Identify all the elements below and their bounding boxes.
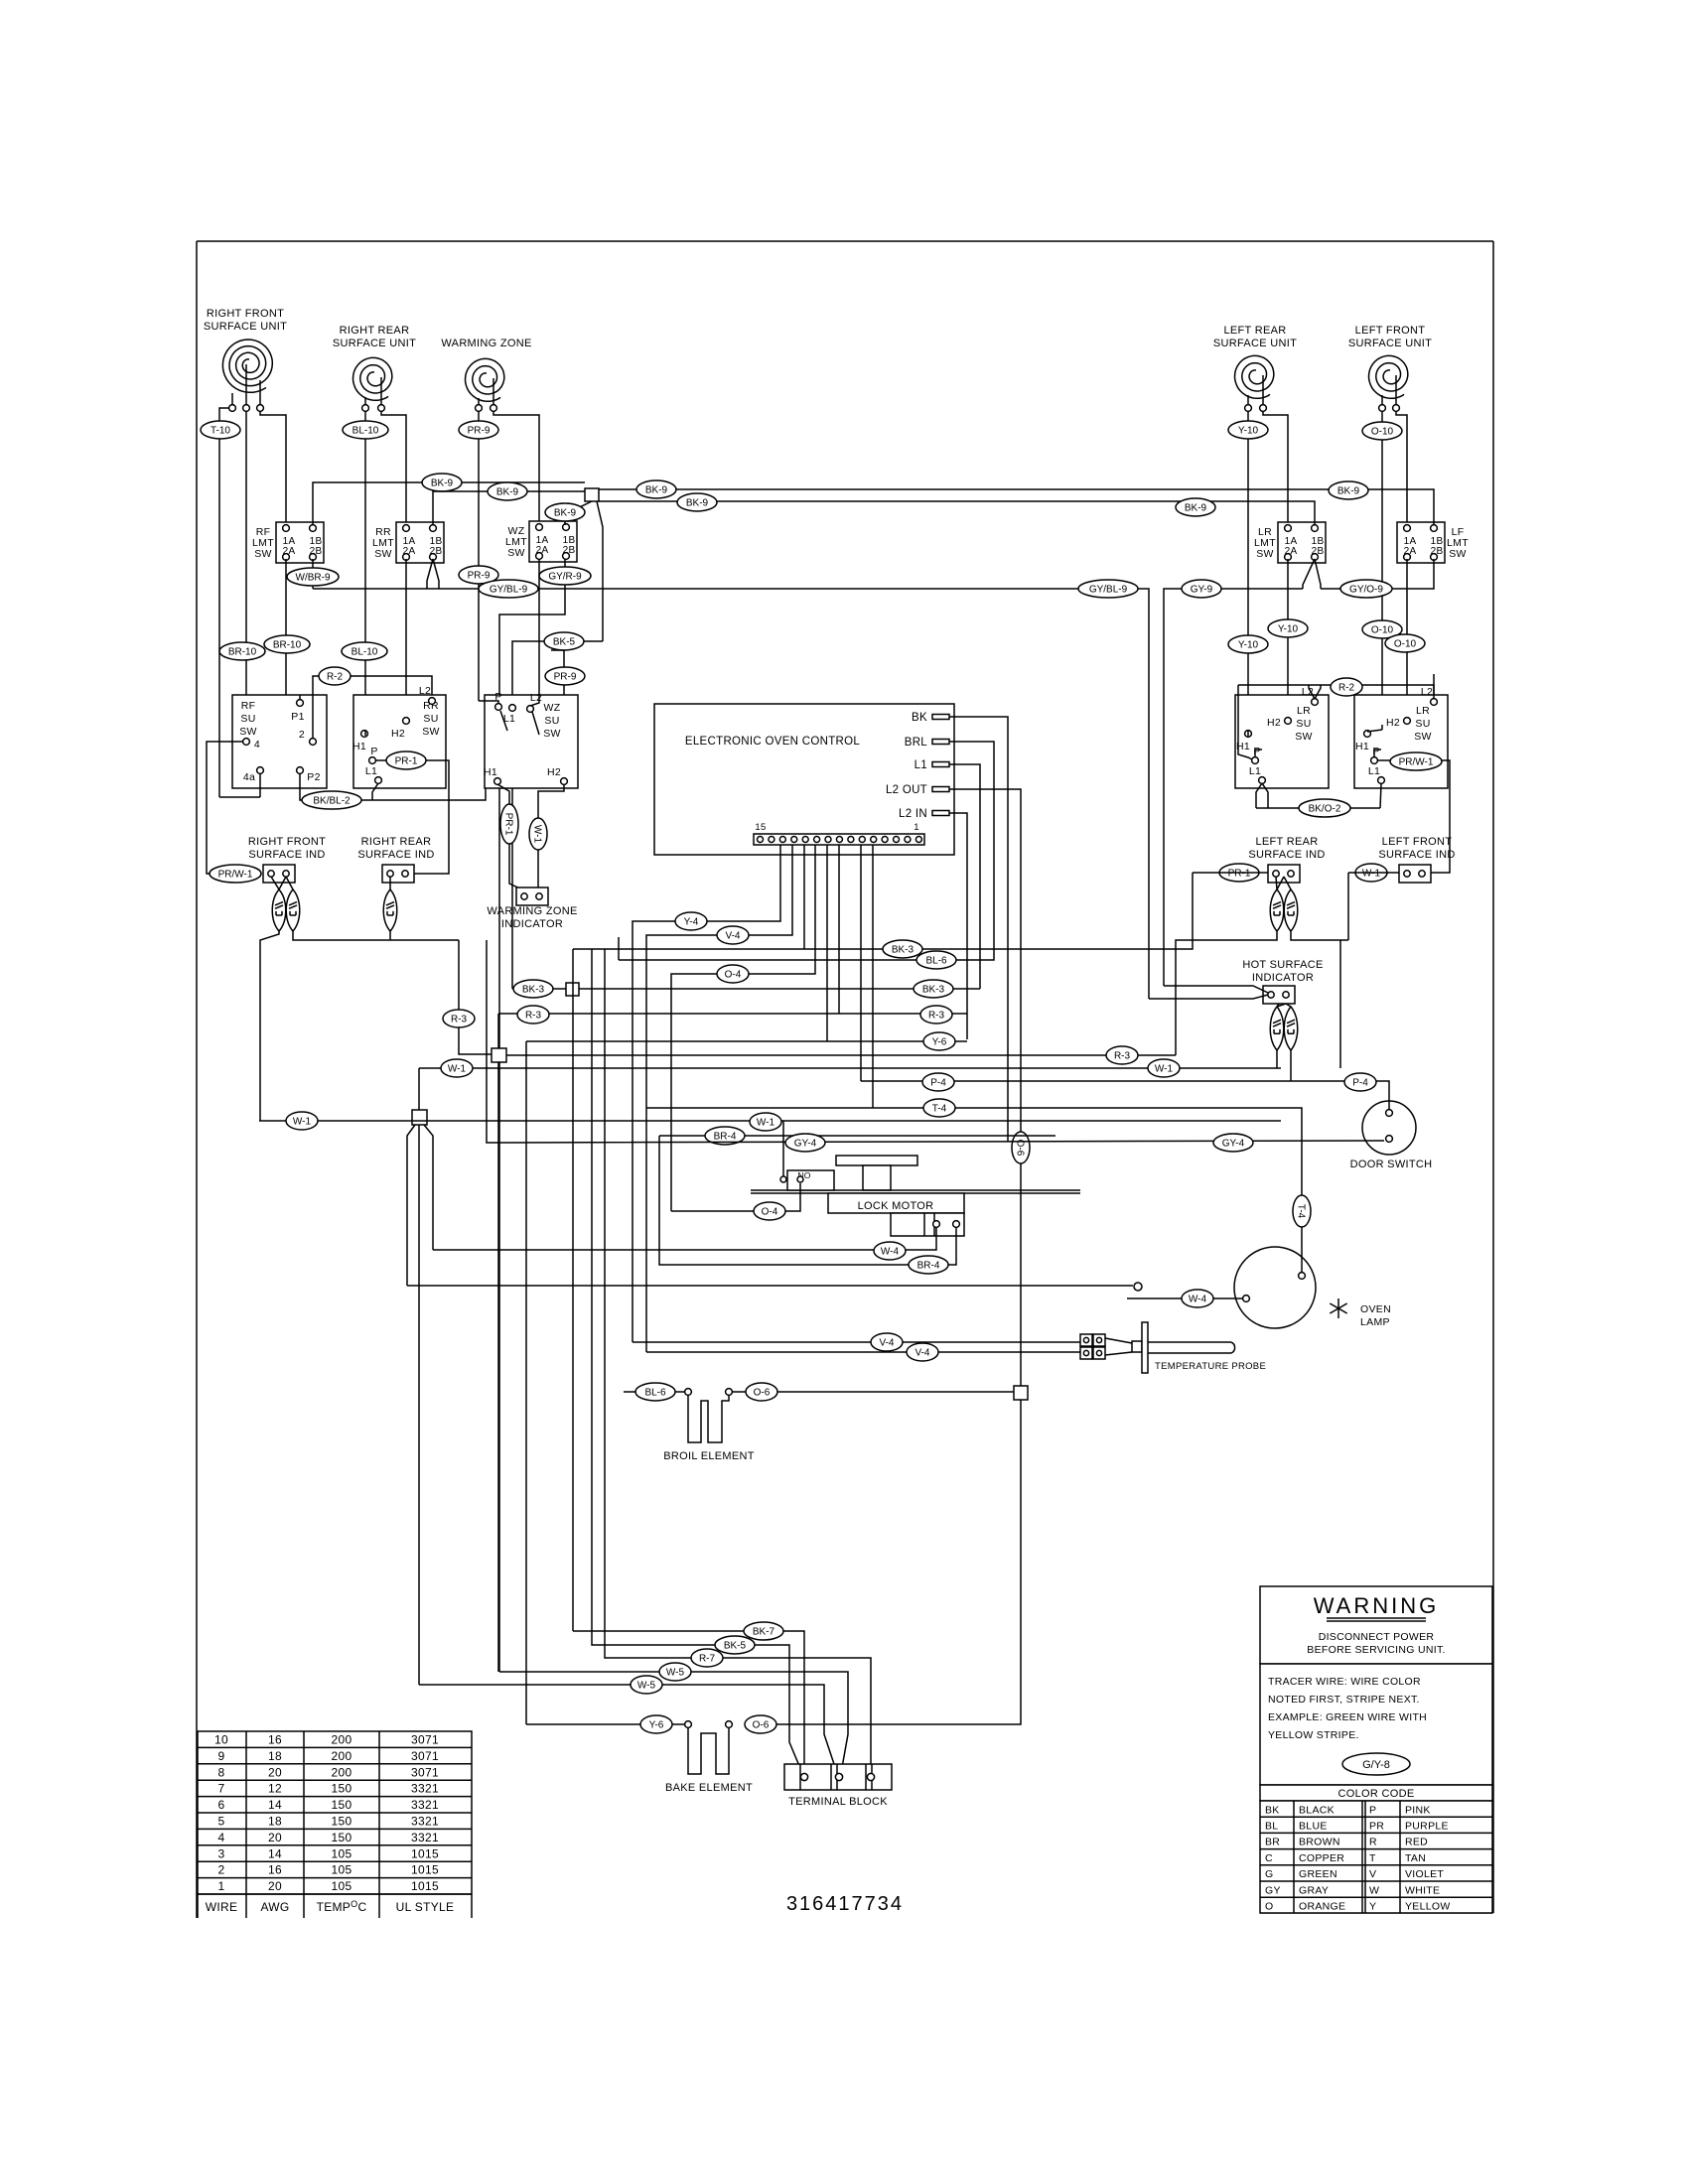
svg-text:200: 200 bbox=[332, 1733, 352, 1747]
svg-text:2A: 2A bbox=[1285, 546, 1298, 557]
svg-text:SW: SW bbox=[239, 726, 257, 738]
svg-text:H1: H1 bbox=[1355, 741, 1369, 752]
RR SU SW pin L1 bbox=[375, 777, 382, 784]
svg-text:INDICATOR: INDICATOR bbox=[1252, 972, 1314, 984]
svg-text:2: 2 bbox=[218, 1863, 225, 1877]
svg-text:2A: 2A bbox=[536, 545, 549, 556]
WZ coil terminal stubs bbox=[478, 398, 480, 405]
wire LR LMT 2B split V to GY-9 bbox=[1303, 559, 1315, 589]
svg-text:L2: L2 bbox=[1302, 686, 1314, 698]
wire O-6 junction down to bake line bbox=[765, 1400, 1021, 1724]
svg-text:BL-10: BL-10 bbox=[352, 647, 378, 658]
label ellipse GY-9 bbox=[1182, 580, 1221, 598]
wire RF ind lamp right return bbox=[293, 931, 459, 940]
svg-text:16: 16 bbox=[268, 1863, 282, 1877]
svg-text:PR-9: PR-9 bbox=[554, 672, 577, 683]
wire RF pin4a drop bbox=[259, 773, 261, 797]
wire O-4 to lock motor bbox=[671, 1183, 800, 1211]
svg-text:GY: GY bbox=[1265, 1884, 1281, 1896]
svg-text:18: 18 bbox=[268, 1749, 282, 1763]
wire LF L2 up to R-2 bbox=[1433, 674, 1435, 699]
svg-text:1: 1 bbox=[914, 822, 919, 833]
svg-text:GY-9: GY-9 bbox=[1191, 585, 1213, 596]
label ellipse W-1 d bbox=[750, 1113, 781, 1131]
label ellipse PR-9 bbox=[459, 421, 498, 439]
svg-text:Y-6: Y-6 bbox=[649, 1720, 664, 1731]
svg-text:WIRE: WIRE bbox=[206, 1900, 238, 1914]
heating coil RF surface unit bbox=[222, 340, 272, 392]
label ellipse T-10 bbox=[201, 421, 240, 439]
label ellipse Y-4 bbox=[675, 912, 707, 930]
wire LR coil T1 down Y-10 bbox=[1247, 411, 1249, 730]
wire W-4 to oven lamp bbox=[1127, 1297, 1242, 1299]
svg-text:PR-1: PR-1 bbox=[502, 813, 513, 836]
svg-text:BR-4: BR-4 bbox=[714, 1132, 737, 1143]
label ellipse W-4 a bbox=[874, 1242, 906, 1260]
svg-text:18: 18 bbox=[268, 1815, 282, 1829]
WZ coil terminals bbox=[476, 405, 483, 412]
wire BK-9 trunk right upper bbox=[599, 489, 1434, 525]
wire junction diagonal to BK-5 bbox=[597, 501, 603, 641]
label ellipse PR-1 left ind bbox=[1219, 864, 1259, 882]
wire LR ind lamp right return bbox=[1291, 931, 1340, 1068]
svg-text:WARNING: WARNING bbox=[1314, 1593, 1440, 1618]
svg-text:Y: Y bbox=[1369, 1901, 1376, 1913]
neon lamp LR ind left bbox=[1270, 889, 1284, 931]
svg-text:8: 8 bbox=[218, 1765, 225, 1779]
wire LR coil T2 to LR LMT 1A bbox=[1263, 411, 1288, 522]
neon lamp RR ind bbox=[383, 889, 397, 931]
svg-text:DOOR SWITCH: DOOR SWITCH bbox=[1350, 1159, 1433, 1170]
wire R-2 right trunk bbox=[1238, 685, 1434, 699]
switch box RF SU SW bbox=[232, 695, 327, 788]
label ellipse BK-9 b bbox=[488, 482, 527, 500]
svg-text:12: 12 bbox=[268, 1782, 282, 1796]
svg-text:BL-6: BL-6 bbox=[925, 956, 947, 967]
wire RR ind box to lamp bbox=[389, 877, 391, 889]
wire PR-1 from L2 IN riser bbox=[1193, 872, 1268, 874]
wire BR-4 upper line bbox=[659, 1135, 1055, 1137]
wire W-1 to LF ind bbox=[1348, 872, 1399, 874]
wire end line left bbox=[407, 1285, 1133, 1287]
label ellipse W/BR-9 bbox=[287, 568, 339, 586]
RF SU SW pin P2 bbox=[297, 767, 304, 774]
svg-text:ORANGE: ORANGE bbox=[1299, 1901, 1345, 1913]
broil element terminals bbox=[685, 1389, 692, 1396]
switch box LR SU SW bbox=[1235, 695, 1329, 788]
svg-text:L1: L1 bbox=[914, 759, 927, 771]
svg-text:SURFACE IND: SURFACE IND bbox=[248, 849, 325, 861]
svg-text:H1: H1 bbox=[484, 766, 497, 778]
wire LF L1 down bbox=[1380, 783, 1381, 808]
wire RF LMT 2B W/BR-9 down bbox=[312, 559, 314, 589]
svg-text:3321: 3321 bbox=[411, 1831, 439, 1844]
svg-text:W-5: W-5 bbox=[637, 1681, 656, 1692]
vertical label ellipse W-1 bbox=[529, 818, 547, 850]
svg-text:G: G bbox=[1265, 1868, 1273, 1880]
label ellipse W-1 b bbox=[1148, 1059, 1180, 1077]
svg-text:V-4: V-4 bbox=[725, 931, 740, 942]
wire RF P2 to BK/BL-2 bbox=[300, 773, 494, 800]
svg-text:W-5: W-5 bbox=[666, 1668, 685, 1679]
label ellipse R-3 c bbox=[920, 1006, 952, 1024]
wire LR ind box to lamps bbox=[1276, 877, 1277, 889]
wire LF coil T1 down O-10 bbox=[1381, 411, 1383, 725]
svg-text:RED: RED bbox=[1405, 1837, 1428, 1848]
temperature probe shaft bbox=[1148, 1341, 1231, 1343]
svg-text:BK-3: BK-3 bbox=[522, 985, 545, 996]
label ellipse O-4 a bbox=[717, 965, 749, 983]
EOC connector pin circles bbox=[758, 837, 764, 843]
wire W-4 lower bbox=[433, 1249, 892, 1251]
svg-text:BK/BL-2: BK/BL-2 bbox=[313, 796, 351, 807]
svg-text:O-10: O-10 bbox=[1394, 639, 1417, 650]
svg-text:SU: SU bbox=[240, 713, 255, 725]
svg-text:BAKE ELEMENT: BAKE ELEMENT bbox=[665, 1782, 753, 1794]
svg-text:3071: 3071 bbox=[411, 1749, 439, 1763]
svg-text:3071: 3071 bbox=[411, 1765, 439, 1779]
LF SU SW pin H2 bbox=[1404, 718, 1411, 725]
svg-text:RIGHT REAR: RIGHT REAR bbox=[361, 836, 432, 848]
wire GY/O-9 line bbox=[1321, 559, 1434, 589]
svg-text:BK-9: BK-9 bbox=[1185, 503, 1207, 514]
svg-text:R-2: R-2 bbox=[327, 672, 344, 683]
svg-text:W: W bbox=[1369, 1884, 1379, 1896]
wire RR coil T2 to RR LMT 1A bbox=[381, 411, 406, 522]
svg-text:150: 150 bbox=[332, 1782, 352, 1796]
wire junction to WZ LMT 1B bbox=[565, 501, 592, 525]
svg-text:GY/R-9: GY/R-9 bbox=[548, 572, 582, 583]
svg-text:BLACK: BLACK bbox=[1299, 1804, 1335, 1816]
label ellipse PR/W-1 left bbox=[210, 865, 261, 883]
svg-text:LR: LR bbox=[1297, 705, 1311, 717]
svg-text:150: 150 bbox=[332, 1831, 352, 1844]
svg-text:GY/BL-9: GY/BL-9 bbox=[490, 585, 528, 596]
wire BK-5 segment bbox=[512, 641, 603, 989]
label ellipse BK-9 d bbox=[636, 480, 676, 498]
label ellipse BR-4 b bbox=[909, 1256, 948, 1274]
lock motor stem bbox=[863, 1165, 891, 1190]
label ellipse BK-3 b bbox=[513, 980, 553, 998]
wire LR L1 to BK/O-2 bbox=[1256, 783, 1262, 808]
label ellipse Y-10 bbox=[1228, 421, 1268, 439]
wire BK-7 riser bbox=[572, 949, 574, 1631]
wire LR P hook bbox=[1254, 750, 1256, 757]
wire R-3 left vertical bbox=[459, 940, 492, 1054]
svg-text:PR-1: PR-1 bbox=[395, 756, 418, 767]
svg-text:COLOR CODE: COLOR CODE bbox=[1338, 1788, 1415, 1800]
wire RR L1 to BK/BL-2 line bbox=[372, 783, 378, 800]
svg-text:BK-9: BK-9 bbox=[1337, 486, 1360, 497]
svg-text:PR-1: PR-1 bbox=[1228, 869, 1251, 880]
svg-text:R-2: R-2 bbox=[1338, 683, 1355, 694]
limit switch RF LMT SW bbox=[276, 522, 324, 563]
wire RR ind lamp return bbox=[389, 931, 391, 940]
svg-text:TERMINAL BLOCK: TERMINAL BLOCK bbox=[788, 1796, 888, 1808]
svg-text:Y-6: Y-6 bbox=[932, 1037, 947, 1048]
svg-text:DISCONNECT POWER: DISCONNECT POWER bbox=[1319, 1631, 1435, 1643]
wire W-1 junction center leg W-5 bbox=[418, 1125, 420, 1685]
label ellipse GY-4 b bbox=[1213, 1134, 1253, 1152]
svg-text:BK: BK bbox=[912, 712, 927, 724]
svg-text:W-1: W-1 bbox=[1362, 869, 1381, 880]
svg-text:H2: H2 bbox=[1386, 717, 1400, 729]
svg-text:WHITE: WHITE bbox=[1405, 1884, 1440, 1896]
svg-text:WARMING ZONE: WARMING ZONE bbox=[441, 338, 531, 349]
label ellipse PR-1 a bbox=[386, 751, 426, 769]
svg-text:RIGHT FRONT: RIGHT FRONT bbox=[248, 836, 326, 848]
neon lamp RF ind left bbox=[272, 889, 286, 931]
svg-text:PURPLE: PURPLE bbox=[1405, 1821, 1449, 1833]
wire R-3 junction up branch bbox=[497, 1014, 499, 1048]
svg-text:2B: 2B bbox=[310, 546, 323, 557]
svg-text:W-1: W-1 bbox=[531, 825, 542, 844]
wire Y-6 riser to bake bbox=[525, 1041, 527, 1724]
indicator RIGHT REAR SURFACE IND box bbox=[382, 865, 414, 883]
svg-text:RF: RF bbox=[241, 700, 256, 712]
svg-text:BK/O-2: BK/O-2 bbox=[1309, 804, 1341, 815]
svg-text:SURFACE UNIT: SURFACE UNIT bbox=[333, 338, 416, 349]
LR coil terminal stubs bbox=[1247, 395, 1249, 405]
svg-text:3321: 3321 bbox=[411, 1815, 439, 1829]
wire RR H1 up bbox=[364, 731, 366, 736]
svg-text:L2 IN: L2 IN bbox=[899, 808, 927, 820]
svg-text:GY-4: GY-4 bbox=[1222, 1139, 1245, 1150]
broil element prongs bbox=[688, 1396, 729, 1442]
svg-text:2A: 2A bbox=[283, 546, 296, 557]
wire WZ H2 to warming zone indicator bbox=[538, 784, 564, 889]
svg-text:H2: H2 bbox=[1267, 717, 1281, 729]
wire RR LMT 1B up to BK-9 trunk bbox=[433, 491, 585, 525]
label ellipse O-4 b bbox=[754, 1202, 785, 1220]
svg-text:INDICATOR: INDICATOR bbox=[501, 918, 563, 930]
svg-text:10: 10 bbox=[214, 1733, 228, 1747]
wire BL-6 to broil bbox=[624, 1391, 684, 1393]
svg-text:ELECTRONIC OVEN CONTROL: ELECTRONIC OVEN CONTROL bbox=[685, 736, 861, 748]
wire RF coil T2 down bbox=[245, 411, 247, 736]
wire R-3 upper line bbox=[498, 1013, 967, 1015]
svg-text:BK-9: BK-9 bbox=[686, 498, 709, 509]
wire GY/BL-9 long line bbox=[313, 589, 1149, 999]
svg-text:Y-4: Y-4 bbox=[684, 917, 699, 928]
label ellipse R-7 bbox=[691, 1649, 723, 1667]
svg-text:UL STYLE: UL STYLE bbox=[396, 1900, 455, 1914]
wire GY-9 into hot surface ind bbox=[1164, 986, 1268, 993]
svg-text:BL: BL bbox=[1265, 1821, 1278, 1833]
label ellipse BK/O-2 bbox=[1299, 799, 1350, 817]
svg-text:2: 2 bbox=[299, 729, 305, 741]
svg-text:V: V bbox=[1369, 1868, 1376, 1880]
wire V-4 line lower bbox=[646, 1351, 1082, 1353]
wire BK-5 line bbox=[592, 949, 802, 1773]
svg-text:3321: 3321 bbox=[411, 1782, 439, 1796]
label ellipse R-2 right bbox=[1331, 678, 1362, 696]
svg-text:TRACER WIRE: WIRE COLOR: TRACER WIRE: WIRE COLOR bbox=[1268, 1676, 1421, 1688]
svg-text:SW: SW bbox=[1449, 548, 1467, 560]
lock motor terminal pins bbox=[933, 1221, 940, 1228]
label ellipse GY/R-9 bbox=[539, 567, 591, 585]
svg-text:PINK: PINK bbox=[1405, 1804, 1431, 1816]
svg-text:H2: H2 bbox=[391, 728, 405, 740]
label ellipse PR-9 second bbox=[459, 566, 498, 584]
wire WZ L2 from LMT bbox=[530, 695, 539, 706]
RR SU SW pin L2 bbox=[429, 698, 436, 705]
lock motor NO switch box bbox=[787, 1170, 834, 1190]
bake element terminals bbox=[685, 1721, 692, 1728]
svg-text:WZ: WZ bbox=[544, 702, 561, 714]
svg-text:T: T bbox=[1369, 1852, 1376, 1864]
svg-text:BK-9: BK-9 bbox=[431, 478, 454, 489]
wire PR-9 stub to WZ H2 bbox=[551, 650, 564, 777]
label ellipse GY/O-9 bbox=[1340, 580, 1392, 598]
svg-text:4: 4 bbox=[254, 739, 260, 751]
svg-text:SU: SU bbox=[1296, 718, 1311, 730]
svg-text:GREEN: GREEN bbox=[1299, 1868, 1337, 1880]
WZ SU SW pin H1 bbox=[494, 778, 501, 785]
wire EOC L1 pin BK-3 bbox=[949, 764, 980, 989]
RF SU SW pin P1 bbox=[297, 700, 304, 707]
svg-text:PR-9: PR-9 bbox=[468, 426, 491, 437]
label ellipse W-4 b bbox=[1182, 1290, 1213, 1307]
wire EOC L2 IN pin bbox=[949, 813, 967, 1039]
lock motor plate bbox=[751, 1189, 1080, 1191]
svg-text:2A: 2A bbox=[403, 546, 416, 557]
svg-text:W-1: W-1 bbox=[1155, 1064, 1174, 1075]
label ellipse BK/BL-2 bbox=[302, 791, 361, 809]
wire pin drop R-3 bbox=[838, 845, 840, 1014]
LR SU SW pin P bbox=[1252, 757, 1259, 764]
wire P-4 line bbox=[861, 1081, 1389, 1110]
limit switch LF LMT SW bbox=[1397, 522, 1445, 563]
vertical label ellipse O-6 bbox=[1012, 1132, 1030, 1163]
svg-text:R-3: R-3 bbox=[525, 1011, 542, 1022]
heating coil LF surface unit bbox=[1369, 355, 1408, 398]
label ellipse Y-10 third bbox=[1268, 619, 1308, 637]
svg-text:1: 1 bbox=[218, 1879, 225, 1893]
wire W-1 vertical to junction bbox=[418, 1068, 420, 1110]
indicator LEFT FRONT SURFACE IND box bbox=[1399, 865, 1431, 883]
svg-text:SURFACE IND: SURFACE IND bbox=[1378, 849, 1455, 861]
svg-text:BK-5: BK-5 bbox=[553, 637, 576, 648]
RF coil terminals bbox=[229, 405, 236, 412]
tracer wire note box bbox=[1260, 1664, 1492, 1785]
neon lamp HSI left bbox=[1270, 1007, 1284, 1050]
warning box frame bbox=[1260, 1586, 1492, 1664]
warning title underline bbox=[1327, 1617, 1426, 1619]
wire LR H1 up bbox=[1247, 731, 1249, 737]
wire GY-BL-9 into hot surface ind bbox=[1149, 995, 1268, 999]
wire EOC BK pin bbox=[949, 717, 1008, 1142]
wire pin drop Y-6 bbox=[826, 845, 828, 1041]
svg-text:BRL: BRL bbox=[905, 737, 928, 749]
wire W-5 line b bbox=[419, 1685, 837, 1773]
indicator RIGHT FRONT SURFACE IND box bbox=[263, 865, 295, 883]
neon lamp RF ind right bbox=[286, 889, 300, 931]
svg-text:Y-10: Y-10 bbox=[1238, 640, 1259, 651]
door switch pins bbox=[1386, 1110, 1393, 1117]
svg-text:105: 105 bbox=[332, 1863, 352, 1877]
svg-text:7: 7 bbox=[218, 1782, 225, 1796]
label ellipse O-10 second bbox=[1362, 620, 1402, 638]
WZ SU SW pin L2 bbox=[527, 706, 534, 713]
svg-text:SURFACE UNIT: SURFACE UNIT bbox=[1213, 338, 1297, 349]
EOC pin L2 IN bbox=[932, 811, 949, 816]
color code clip bbox=[1258, 1914, 1496, 1926]
color code table grid bbox=[1260, 1801, 1492, 1913]
label WARMING ZONE INDICATOR box bbox=[516, 887, 548, 905]
wire BK-7 line bbox=[573, 1631, 804, 1773]
RF SU SW pin 2 bbox=[310, 739, 317, 746]
wire LF LMT 2A down to LF H2 bbox=[1406, 559, 1408, 717]
WZ SU SW pin L1 bbox=[509, 705, 516, 712]
svg-text:LEFT REAR: LEFT REAR bbox=[1255, 836, 1318, 848]
label ellipse BK-9 f bbox=[1329, 481, 1368, 499]
svg-text:SW: SW bbox=[1414, 731, 1432, 743]
label ellipse T-4 b bbox=[1293, 1195, 1311, 1227]
oven lamp circle bbox=[1234, 1247, 1316, 1328]
svg-text:W-1: W-1 bbox=[448, 1064, 467, 1075]
svg-text:AWG: AWG bbox=[260, 1900, 289, 1914]
svg-text:RIGHT FRONT: RIGHT FRONT bbox=[207, 308, 284, 320]
temperature probe connector bbox=[1080, 1334, 1092, 1346]
svg-text:BK: BK bbox=[1265, 1804, 1280, 1816]
svg-text:SURFACE IND: SURFACE IND bbox=[357, 849, 434, 861]
svg-text:BK-7: BK-7 bbox=[753, 1627, 775, 1638]
svg-text:2A: 2A bbox=[1404, 546, 1417, 557]
bake element prongs bbox=[688, 1728, 729, 1774]
wire BK-9 trunk right lower bbox=[599, 501, 1315, 525]
LF coil terminal stubs bbox=[1381, 395, 1383, 405]
hot surface indicator box bbox=[1263, 986, 1295, 1004]
wire HSI box to lamps bbox=[1277, 1004, 1279, 1007]
label ellipse BL-6 b bbox=[635, 1383, 675, 1401]
label ellipse Y-6 bbox=[923, 1032, 955, 1050]
wire WZ H1 to warming zone indicator bbox=[497, 784, 524, 890]
svg-text:1015: 1015 bbox=[411, 1846, 439, 1860]
EOC pin BRL bbox=[932, 740, 949, 745]
wire LR L2 V to R-2 bbox=[1309, 685, 1315, 699]
label ellipse BK-3 a bbox=[883, 940, 922, 958]
label ellipse BR-10 second bbox=[264, 635, 310, 653]
svg-text:5: 5 bbox=[218, 1815, 225, 1829]
indicator LEFT REAR SURFACE IND box bbox=[1268, 865, 1300, 883]
LR SU SW pin L2 bbox=[1312, 699, 1319, 706]
label ellipse GY-4 a bbox=[785, 1134, 825, 1152]
svg-text:BK-3: BK-3 bbox=[922, 985, 945, 996]
RR coil terminals bbox=[362, 405, 369, 412]
svg-text:HOT SURFACE: HOT SURFACE bbox=[1242, 959, 1323, 971]
wire R-2 left leg to LR P bbox=[1238, 685, 1252, 759]
svg-text:C: C bbox=[1265, 1852, 1273, 1864]
heating coil WZ warming zone bbox=[466, 358, 504, 401]
svg-text:20: 20 bbox=[268, 1879, 282, 1893]
LR SU SW pin L1 bbox=[1259, 777, 1266, 784]
wire R-3 junction down branch W-5 bbox=[497, 1062, 499, 1672]
label ellipse T-4 a bbox=[923, 1099, 955, 1117]
LR SU SW pin H2 bbox=[1285, 718, 1292, 725]
svg-text:SW: SW bbox=[1295, 731, 1313, 743]
svg-text:R-3: R-3 bbox=[451, 1015, 468, 1025]
wire LR LMT 2A down to LR H2 bbox=[1287, 559, 1289, 717]
wire RR coil T1 down BL-10 bbox=[364, 411, 366, 736]
label ellipse V-4 b bbox=[871, 1333, 903, 1351]
svg-text:G/Y-8: G/Y-8 bbox=[1362, 1759, 1390, 1771]
svg-text:BK-9: BK-9 bbox=[554, 508, 577, 519]
svg-text:BL-10: BL-10 bbox=[352, 426, 379, 437]
color code header box bbox=[1260, 1785, 1492, 1801]
svg-text:14: 14 bbox=[268, 1846, 282, 1860]
wire EOC L2 OUT pin O-6 riser bbox=[949, 789, 1021, 1386]
